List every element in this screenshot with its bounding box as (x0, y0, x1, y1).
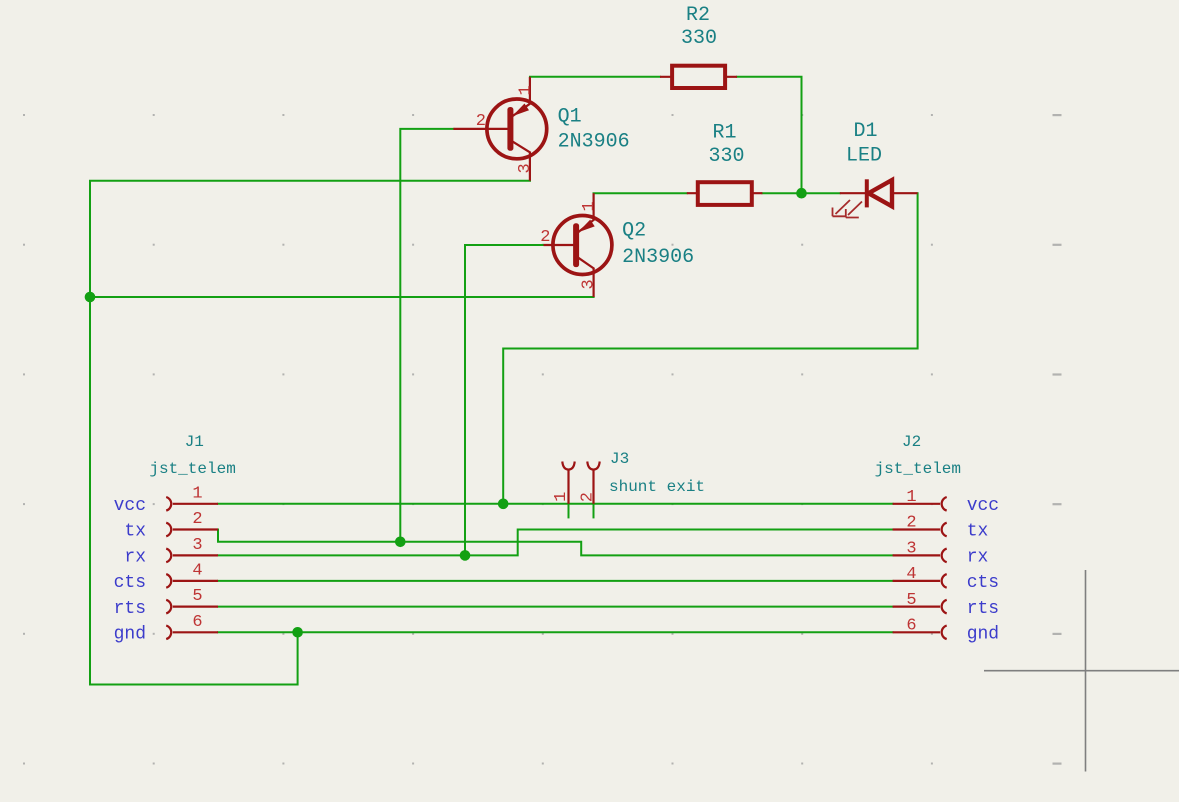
wire J1 rx to J2 tx (218, 530, 893, 556)
svg-text:3: 3 (580, 279, 599, 289)
svg-text:rts: rts (114, 599, 146, 619)
wire J3 pin1 stub (568, 504, 570, 518)
junction left rail / Q2 collector (85, 292, 96, 303)
svg-text:shunt exit: shunt exit (609, 478, 705, 496)
svg-text:1: 1 (552, 492, 571, 502)
connector J1 (166, 497, 218, 639)
svg-text:vcc: vcc (114, 496, 146, 516)
svg-text:cts: cts (967, 573, 999, 593)
junction R1/R2/LED node (796, 188, 807, 199)
wire Q2 base down to rx net (465, 245, 544, 555)
svg-text:1: 1 (192, 484, 202, 503)
junction vcc node (498, 499, 509, 510)
connector J2 (893, 497, 947, 639)
svg-text:J1: J1 (185, 433, 204, 451)
svg-text:3: 3 (192, 536, 202, 555)
svg-text:LED: LED (846, 145, 882, 168)
wire Q2 emitter to R1 left (594, 192, 687, 194)
svg-text:5: 5 (906, 591, 916, 610)
resistor R2 (660, 66, 737, 88)
wire J1 tx to J2 rx (218, 530, 893, 556)
svg-text:R1: R1 (712, 122, 736, 145)
svg-text:gnd: gnd (967, 625, 999, 645)
svg-text:2: 2 (906, 514, 916, 533)
svg-text:2: 2 (578, 492, 597, 502)
wire Q1 collector left rail to gnd net (90, 181, 530, 685)
svg-text:1: 1 (906, 488, 916, 507)
wire gnd J1 to J2 (218, 631, 893, 633)
wire Q1 base down to tx net (400, 129, 453, 542)
svg-text:rx: rx (124, 548, 146, 568)
svg-text:rts: rts (967, 599, 999, 619)
svg-text:R2: R2 (686, 4, 710, 27)
LED D1 (833, 179, 918, 217)
svg-text:6: 6 (906, 617, 916, 636)
wire J3 pin2 stub (593, 504, 595, 518)
svg-text:330: 330 (681, 27, 717, 50)
wire rts J1 to J2 (218, 606, 893, 608)
transistor Q2 (544, 193, 612, 297)
wire R1 right to LED anode (762, 192, 839, 194)
svg-text:2: 2 (476, 112, 486, 131)
svg-text:cts: cts (114, 573, 146, 593)
svg-text:3: 3 (906, 540, 916, 559)
svg-text:gnd: gnd (114, 625, 146, 645)
junction Q2 base / rx net (460, 550, 471, 561)
svg-text:J2: J2 (902, 433, 921, 451)
svg-text:4: 4 (906, 565, 916, 584)
svg-text:3: 3 (516, 163, 535, 173)
wire Q2 collector to left rail (90, 296, 594, 298)
junction Q1 base / tx net (395, 537, 406, 548)
wire LED right down-around to vcc node (503, 193, 917, 504)
svg-text:D1: D1 (853, 120, 877, 143)
svg-text:4: 4 (192, 561, 202, 580)
wire R2 to LED node (737, 77, 802, 193)
svg-text:J3: J3 (610, 450, 629, 468)
svg-text:rx: rx (967, 548, 989, 568)
svg-text:Q2: Q2 (622, 220, 646, 243)
sheet origin crosshair (984, 570, 1179, 772)
svg-text:vcc: vcc (967, 496, 999, 516)
svg-text:1: 1 (517, 85, 536, 95)
svg-text:2N3906: 2N3906 (558, 130, 630, 153)
wire Q1 emitter to R2 (530, 76, 660, 78)
resistor R1 (687, 182, 763, 205)
svg-text:jst_telem: jst_telem (875, 460, 961, 478)
connector J3 shunt (562, 462, 599, 504)
svg-text:6: 6 (192, 613, 202, 632)
svg-text:jst_telem: jst_telem (149, 460, 235, 478)
svg-text:2N3906: 2N3906 (622, 246, 694, 269)
svg-text:2: 2 (540, 228, 550, 247)
junction gnd net (292, 627, 303, 638)
svg-text:tx: tx (124, 522, 146, 542)
svg-text:tx: tx (967, 522, 989, 542)
svg-text:330: 330 (708, 145, 744, 168)
svg-text:Q1: Q1 (558, 106, 582, 129)
transistor Q1 (453, 77, 546, 181)
svg-text:5: 5 (192, 587, 202, 606)
svg-text:2: 2 (192, 510, 202, 529)
wire vcc J1 to J2 (218, 503, 893, 505)
wire cts J1 to J2 (218, 580, 893, 582)
svg-text:1: 1 (580, 201, 599, 211)
